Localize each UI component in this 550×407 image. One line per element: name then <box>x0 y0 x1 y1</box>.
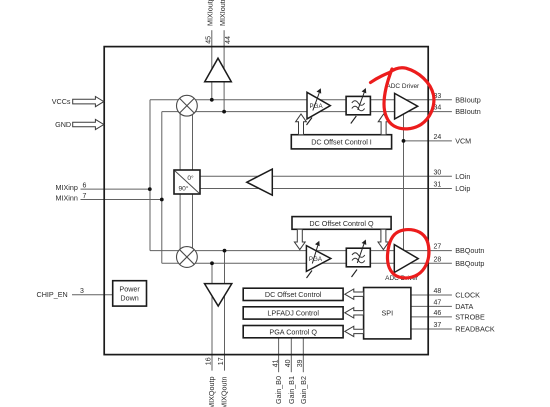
wire DATA pin 47 <box>411 305 452 307</box>
svg-text:16: 16 <box>206 357 213 365</box>
DC Offset Control Q box <box>292 217 391 230</box>
SPI arrow to LPFADJ Control <box>345 308 364 318</box>
PGA Control Q box <box>243 326 343 338</box>
chip boundary <box>104 47 428 355</box>
junction node pin44/rail <box>222 110 226 114</box>
svg-text:DC Offset Control Q: DC Offset Control Q <box>309 219 374 228</box>
svg-text:45: 45 <box>205 36 212 44</box>
svg-text:46: 46 <box>434 310 442 317</box>
svg-text:31: 31 <box>434 182 442 189</box>
svg-text:28: 28 <box>434 256 442 263</box>
phase splitter 0/90 box <box>174 170 200 194</box>
wire LOin rail y=176.3 <box>200 175 452 177</box>
svg-text:48: 48 <box>434 288 442 295</box>
svg-text:MIXQoutn: MIXQoutn <box>220 376 229 407</box>
wire LOip rail y=188.5 <box>200 188 452 190</box>
svg-text:BBIoutp: BBIoutp <box>455 95 481 104</box>
svg-text:CHIP_EN: CHIP_EN <box>37 290 68 299</box>
ADC driver I <box>395 93 418 119</box>
mixer Q (bottom) <box>177 247 198 268</box>
wire MIXIoutp pin 45 vertical <box>211 30 213 100</box>
svg-text:BBIoutn: BBIoutn <box>455 107 481 116</box>
wire MIXQoutn pin 17 vertical <box>224 251 226 371</box>
svg-text:MIXIoutn: MIXIoutn <box>218 0 227 26</box>
svg-text:PGA Control Q: PGA Control Q <box>269 327 317 336</box>
svg-text:DC Offset Control: DC Offset Control <box>265 290 322 299</box>
wire READBACK pin 37 <box>411 328 452 330</box>
wire left vertical bus x=161.8 <box>161 112 163 264</box>
wire VCM vertical <box>403 112 405 252</box>
svg-text:SPI: SPI <box>382 309 394 318</box>
svg-text:PGA: PGA <box>309 256 323 263</box>
svg-text:6: 6 <box>83 183 87 190</box>
wire STROBE pin 46 <box>411 316 452 318</box>
wire MIXQoutp pin 16 vertical <box>211 263 213 370</box>
svg-text:LPFADJ Control: LPFADJ Control <box>267 309 319 318</box>
svg-text:39: 39 <box>297 359 304 367</box>
svg-text:27: 27 <box>434 244 442 251</box>
wire LO to bottom mixer right <box>192 194 194 258</box>
DC Offset Control box <box>243 288 343 300</box>
red annotation circle around ADC driver I <box>371 68 434 129</box>
wire CHIP_EN pin 3 <box>72 294 113 296</box>
junction node pin45/rail <box>210 98 214 102</box>
svg-text:GND: GND <box>55 120 71 129</box>
wire MIXinp pin 6 <box>81 188 151 190</box>
wire Gain_B2 pin 39 <box>302 339 304 373</box>
svg-text:90°: 90° <box>179 184 189 192</box>
junction node VCM <box>402 139 406 143</box>
wire MIXinn pin 7 <box>81 199 162 201</box>
svg-text:ADC Driver: ADC Driver <box>386 83 420 90</box>
amplifier bottom (MIXQout buffer) <box>205 284 232 306</box>
Power Down box <box>113 281 147 306</box>
SPI box <box>364 288 411 339</box>
svg-text:44: 44 <box>225 36 232 44</box>
svg-text:47: 47 <box>434 299 442 306</box>
wire VCM pin 24 <box>404 140 452 142</box>
wire LO to top mixer right <box>192 106 194 170</box>
svg-text:MIXQoutp: MIXQoutp <box>207 376 216 407</box>
up arrow DC offset I to ADC driver <box>378 114 389 135</box>
mixer I (top) <box>177 95 198 116</box>
svg-text:BBQoutp: BBQoutp <box>455 259 484 268</box>
svg-text:VCCs: VCCs <box>52 97 71 106</box>
down arrow DC offset Q to PGA <box>294 229 305 249</box>
DC Offset Control I box <box>291 135 391 149</box>
wire LO to bottom mixer left <box>179 194 181 258</box>
svg-text:Down: Down <box>120 293 138 302</box>
wire Q upper rail y=250.6 <box>150 250 452 252</box>
junction node MIXinn <box>160 198 164 202</box>
LO buffer amp <box>247 169 272 195</box>
GND input arrow <box>73 119 104 129</box>
LPF Q <box>346 240 370 278</box>
svg-text:Power: Power <box>119 285 140 294</box>
svg-text:MIXIoutp: MIXIoutp <box>205 0 214 26</box>
red annotation circle around ADC driver Q <box>387 230 429 278</box>
wire left vertical bus x=150 <box>149 100 151 251</box>
wire Q lower rail y=263.3 <box>162 262 452 264</box>
svg-text:40: 40 <box>285 359 292 367</box>
LPFADJ Control box <box>243 307 343 319</box>
VCCs input arrow <box>73 97 104 107</box>
svg-text:PGA: PGA <box>310 103 324 110</box>
junction node MIXinp <box>148 187 152 191</box>
svg-text:DATA: DATA <box>455 302 473 311</box>
svg-text:READBACK: READBACK <box>455 325 495 334</box>
wire Gain_B1 pin 40 <box>290 339 292 373</box>
wire CLOCK pin 48 <box>411 294 452 296</box>
svg-text:LOip: LOip <box>455 184 470 193</box>
svg-text:LOin: LOin <box>455 172 470 181</box>
svg-text:0°: 0° <box>187 174 194 182</box>
LPF I <box>346 88 370 124</box>
svg-text:37: 37 <box>434 322 442 329</box>
SPI arrow to DC Offset Control <box>345 289 364 299</box>
svg-text:DC Offset Control I: DC Offset Control I <box>311 138 372 147</box>
svg-text:17: 17 <box>218 357 225 365</box>
ADC driver Q <box>394 245 418 273</box>
svg-text:7: 7 <box>83 193 87 200</box>
svg-text:MIXinn: MIXinn <box>56 193 78 202</box>
PGA I <box>307 88 331 125</box>
svg-text:Gain_B1: Gain_B1 <box>287 376 296 404</box>
svg-text:STROBE: STROBE <box>455 312 485 321</box>
PGA Q <box>306 241 330 278</box>
wire I lower rail y=111.6 <box>162 111 452 113</box>
wire MIXIoutn pin 44 vertical <box>223 30 225 111</box>
svg-text:CLOCK: CLOCK <box>455 291 480 300</box>
svg-text:24: 24 <box>434 134 442 141</box>
svg-text:BBQoutn: BBQoutn <box>455 246 484 255</box>
wire LO to top mixer left <box>179 106 181 170</box>
svg-text:Gain_B0: Gain_B0 <box>274 376 283 404</box>
svg-text:30: 30 <box>434 169 442 176</box>
amplifier top (MIXIout buffer) <box>205 58 232 81</box>
wire Gain_B0 pin 41 <box>278 339 280 373</box>
up arrow DC offset I to PGA <box>296 114 307 135</box>
wire I upper rail y=99.8 <box>150 99 452 101</box>
down arrow DC offset Q to ADC driver <box>378 229 389 249</box>
SPI arrow to PGA Control Q <box>345 326 364 336</box>
svg-text:VCM: VCM <box>455 136 471 145</box>
svg-text:MIXinp: MIXinp <box>56 183 78 192</box>
svg-text:3: 3 <box>80 288 84 295</box>
junction node pin17/rail <box>223 249 227 253</box>
svg-text:Gain_B2: Gain_B2 <box>299 376 308 404</box>
junction node pin16/rail <box>210 261 214 265</box>
svg-text:41: 41 <box>272 359 279 367</box>
